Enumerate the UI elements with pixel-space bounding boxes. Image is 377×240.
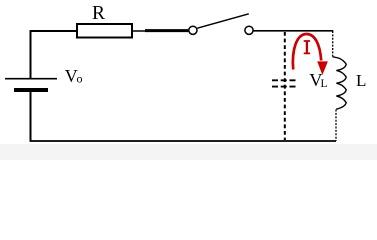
svg-text:o: o <box>77 71 83 85</box>
wire: resistor to switch (bold part) <box>145 29 188 32</box>
dashed capacitor bottom plate <box>272 86 296 88</box>
wire: left rail lower segment (battery to bottom wire) <box>30 92 32 141</box>
dashed capacitor branch: vertical dashed line <box>284 32 286 140</box>
battery V0 positive plate (long thin) <box>5 78 57 80</box>
wire: bottom return wire <box>30 140 337 142</box>
red current arc I <box>293 34 321 70</box>
wire: dotted vertical top-right corner down to coil <box>332 31 334 57</box>
label I (red) <box>304 41 310 53</box>
svg-text:L: L <box>320 78 327 90</box>
wire: switch to top-right corner <box>253 30 333 32</box>
resistor R body <box>77 24 132 38</box>
dashed capacitor top plate <box>272 79 296 81</box>
switch left terminal <box>189 26 197 34</box>
svg-text:L: L <box>356 71 366 90</box>
inductor L coil <box>333 57 346 109</box>
wire: resistor to switch (thin part) <box>132 30 146 32</box>
battery V0 negative plate (short thick) <box>14 88 48 92</box>
switch right terminal <box>245 26 253 34</box>
svg-text:R: R <box>92 3 105 24</box>
gray footer band <box>0 144 377 160</box>
wire: dotted vertical coil bottom to bottom wire <box>335 110 337 142</box>
wire: top-left rail (left vertical + top horizontal to resistor) <box>31 31 77 78</box>
red arrowhead <box>317 61 328 75</box>
switch lever (open) <box>197 14 249 28</box>
